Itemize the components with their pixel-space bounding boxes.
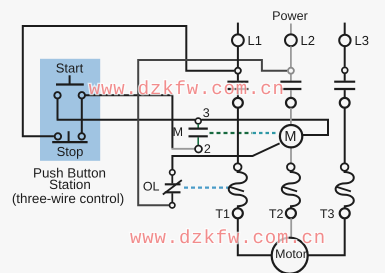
node L1 junction [235, 68, 241, 74]
contact bars [189, 129, 208, 137]
start operator stem [69, 75, 71, 84]
svg-text:T2: T2 [269, 207, 284, 221]
L3 terminal [339, 35, 350, 46]
svg-text:L1: L1 [248, 33, 262, 48]
start left terminal [54, 92, 60, 98]
auxiliary memory contact M (terminals 2-3) [173, 106, 211, 156]
svg-text:Stop: Stop [57, 144, 84, 159]
L2 terminal below contact [286, 98, 296, 108]
stop operator stem [68, 131, 70, 141]
svg-text:Power: Power [272, 9, 308, 23]
contact M pole L1 [227, 82, 248, 89]
blue dashed link OL to T1 heater [184, 187, 231, 189]
L3 terminal below contact [340, 98, 350, 108]
L1 wire to contact [237, 75, 239, 81]
wire T3 to motor [307, 218, 344, 255]
node above heater T2 [287, 163, 295, 171]
push button station blue panel [40, 59, 100, 161]
wire coil lower-left to OL top [172, 143, 279, 169]
L2 wire below coil (gray) [290, 149, 292, 164]
svg-text:Motor: Motor [275, 247, 307, 261]
L2 wire to coil (gray) [290, 108, 292, 124]
node above heater T3 [341, 163, 349, 171]
node L3 [342, 67, 348, 73]
wire terminal 3 to coil right side [201, 120, 328, 135]
wire T1 to motor [238, 218, 271, 255]
OL bottom terminal [170, 203, 175, 208]
wire gray stub to terminal 2 [172, 148, 195, 150]
wire OL bottom to L2 junction (dark return wire) [138, 60, 287, 205]
L1 terminal below contact [233, 98, 243, 108]
svg-text:OL: OL [143, 180, 160, 194]
node above heater T1 [234, 163, 242, 171]
stop right terminal [79, 133, 85, 139]
green stem top [197, 124, 199, 128]
terminal 2 [195, 146, 202, 153]
svg-text:www.dzkfw.com.cn: www.dzkfw.com.cn [89, 78, 285, 100]
stop movable contact bar [52, 141, 87, 143]
T2 terminal [286, 208, 296, 218]
pushbutton Stop (NC contact) [52, 131, 87, 142]
L1 wire to junction [237, 46, 239, 67]
wire rung start-left to M aux terminal 3 [57, 119, 195, 121]
OL top terminal [170, 170, 175, 175]
node L2 junction (gray) [288, 68, 294, 74]
OL NC slash [163, 180, 182, 194]
svg-text:3: 3 [203, 106, 210, 120]
OL bottom stub [171, 193, 173, 202]
heater element T2 [282, 171, 300, 208]
OL top stub [171, 175, 173, 183]
green dashed link M aux to coil [210, 132, 253, 134]
L3 top stub [344, 23, 346, 35]
L3 wire down [344, 108, 346, 164]
L2 terminal [285, 34, 297, 46]
svg-text:T1: T1 [215, 207, 230, 221]
start movable contact bar [56, 83, 84, 85]
wire start-right down to stop-right [81, 99, 83, 133]
T3 terminal [340, 208, 350, 218]
L3 wire to contact [344, 73, 346, 80]
coil M [280, 125, 302, 147]
overload relay contact OL (NC) [143, 170, 182, 208]
L1 wire down [237, 108, 239, 164]
L1 top stub [237, 23, 239, 34]
OL contact bars [165, 184, 181, 192]
wire start-left terminal down to rung [57, 99, 59, 120]
svg-text:2: 2 [204, 142, 211, 156]
stop left terminal [55, 133, 61, 139]
start right terminal [79, 92, 85, 98]
svg-text:M: M [284, 129, 296, 145]
svg-text:www.dzkfw.com.cn: www.dzkfw.com.cn [130, 227, 326, 249]
L2 wire to contact (gray) [290, 75, 292, 81]
L2 top stub (gray) [290, 24, 292, 34]
svg-text:Start: Start [56, 61, 84, 76]
L1 terminal [232, 34, 244, 46]
svg-text:T3: T3 [320, 207, 335, 221]
terminal 3 [195, 118, 201, 124]
svg-text:L3: L3 [355, 33, 369, 48]
motor (three-phase) [272, 238, 308, 273]
heater element T1 [229, 171, 247, 208]
L3 wire down [344, 46, 346, 66]
T1 terminal [233, 208, 243, 218]
contact M pole L3 [334, 82, 355, 89]
svg-text:(three-wire control): (three-wire control) [12, 191, 124, 206]
contact M pole L2 [280, 82, 301, 89]
wire T2 to motor (gray) [290, 218, 292, 238]
svg-text:L2: L2 [301, 33, 315, 48]
wire L1 junction to Stop (control feed loop) [23, 26, 234, 136]
pushbutton Start (NO contact) [54, 75, 85, 98]
wire start-right terminal to aux terminal 2 branch [85, 95, 172, 149]
heater element T3 [336, 171, 354, 208]
green stem bottom [197, 137, 199, 145]
svg-text:M: M [173, 125, 183, 139]
svg-text:Station: Station [49, 177, 91, 192]
L2 wire to junction (gray) [290, 46, 292, 67]
